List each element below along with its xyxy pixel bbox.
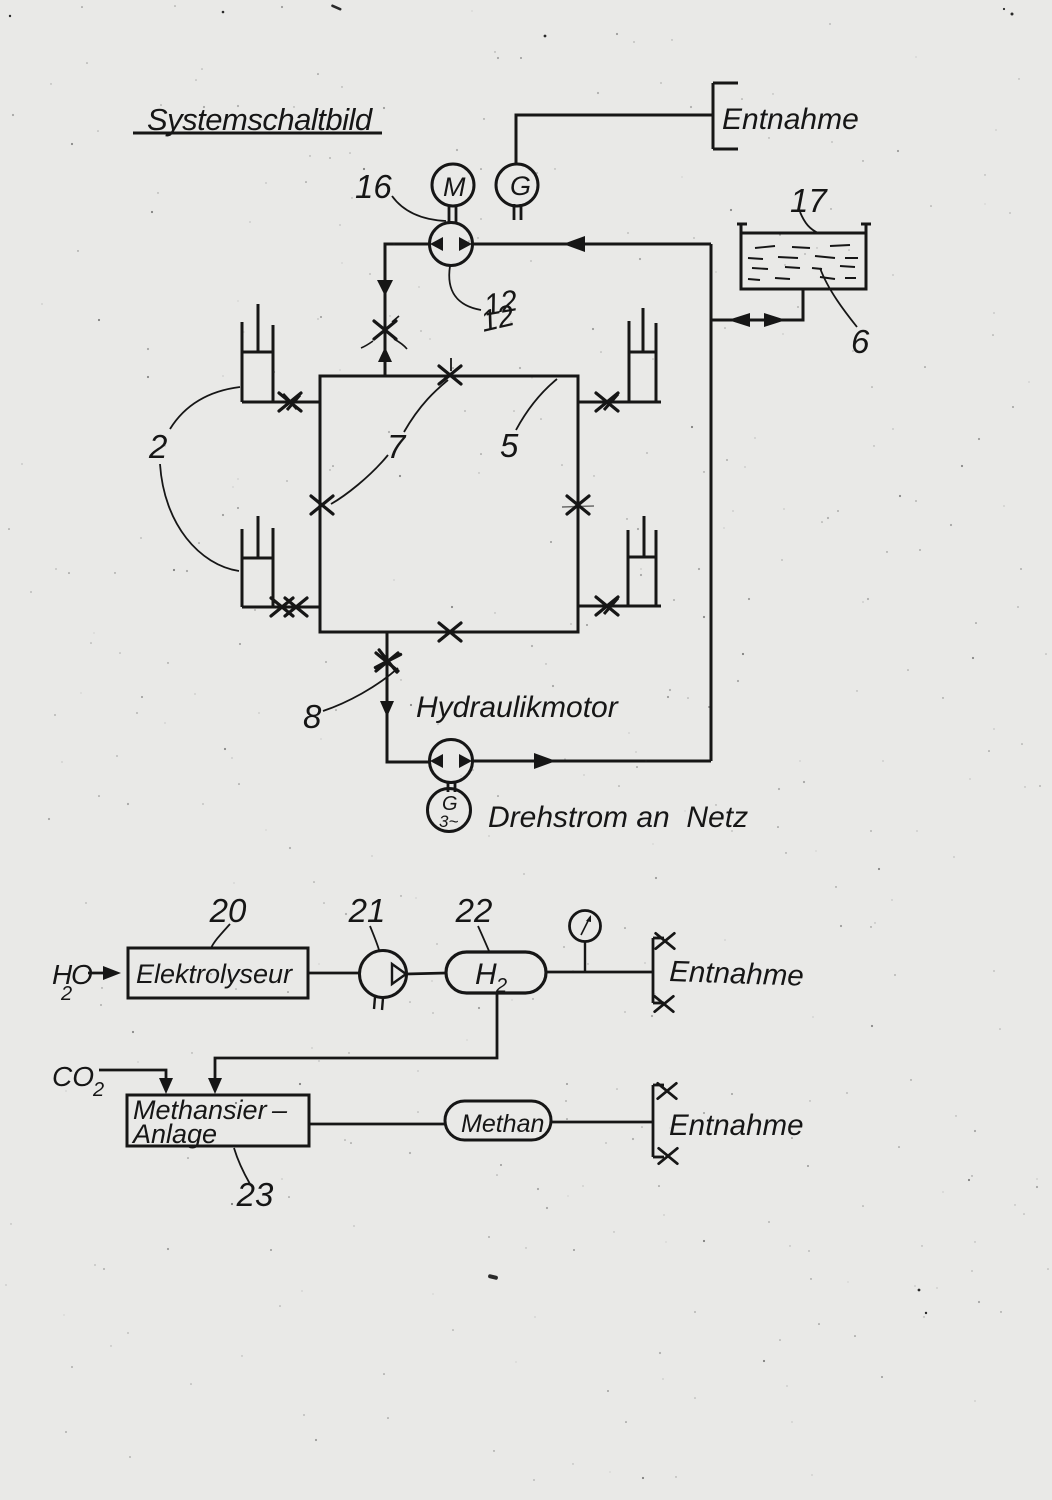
svg-text:Drehstrom an Netz: Drehstrom an Netz: [488, 801, 748, 834]
svg-text:16: 16: [355, 168, 392, 205]
svg-text:20: 20: [209, 892, 247, 929]
svg-text:Elektrolyseur: Elektrolyseur: [136, 959, 293, 989]
svg-text:M: M: [443, 172, 466, 202]
svg-text:6: 6: [851, 323, 870, 360]
svg-text:G: G: [510, 171, 531, 201]
svg-text:3~: 3~: [439, 812, 458, 831]
svg-text:2: 2: [92, 1079, 104, 1101]
svg-text:CO: CO: [52, 1061, 94, 1092]
svg-text:H: H: [475, 958, 497, 991]
svg-text:2: 2: [148, 428, 167, 465]
svg-text:7: 7: [387, 428, 407, 465]
svg-text:22: 22: [455, 892, 493, 929]
svg-text:Anlage: Anlage: [131, 1119, 217, 1149]
svg-text:21: 21: [348, 892, 386, 929]
svg-text:Entnahme: Entnahme: [669, 955, 805, 993]
svg-text:Methan: Methan: [461, 1110, 544, 1138]
svg-text:O: O: [71, 959, 93, 990]
svg-text:Entnahme: Entnahme: [669, 1109, 803, 1142]
svg-text:8: 8: [303, 698, 322, 735]
svg-text:17: 17: [790, 182, 828, 219]
svg-text:Hydraulikmotor: Hydraulikmotor: [416, 691, 619, 724]
svg-text:23: 23: [236, 1176, 274, 1213]
svg-text:Entnahme: Entnahme: [722, 103, 859, 136]
svg-text:5: 5: [500, 427, 519, 464]
